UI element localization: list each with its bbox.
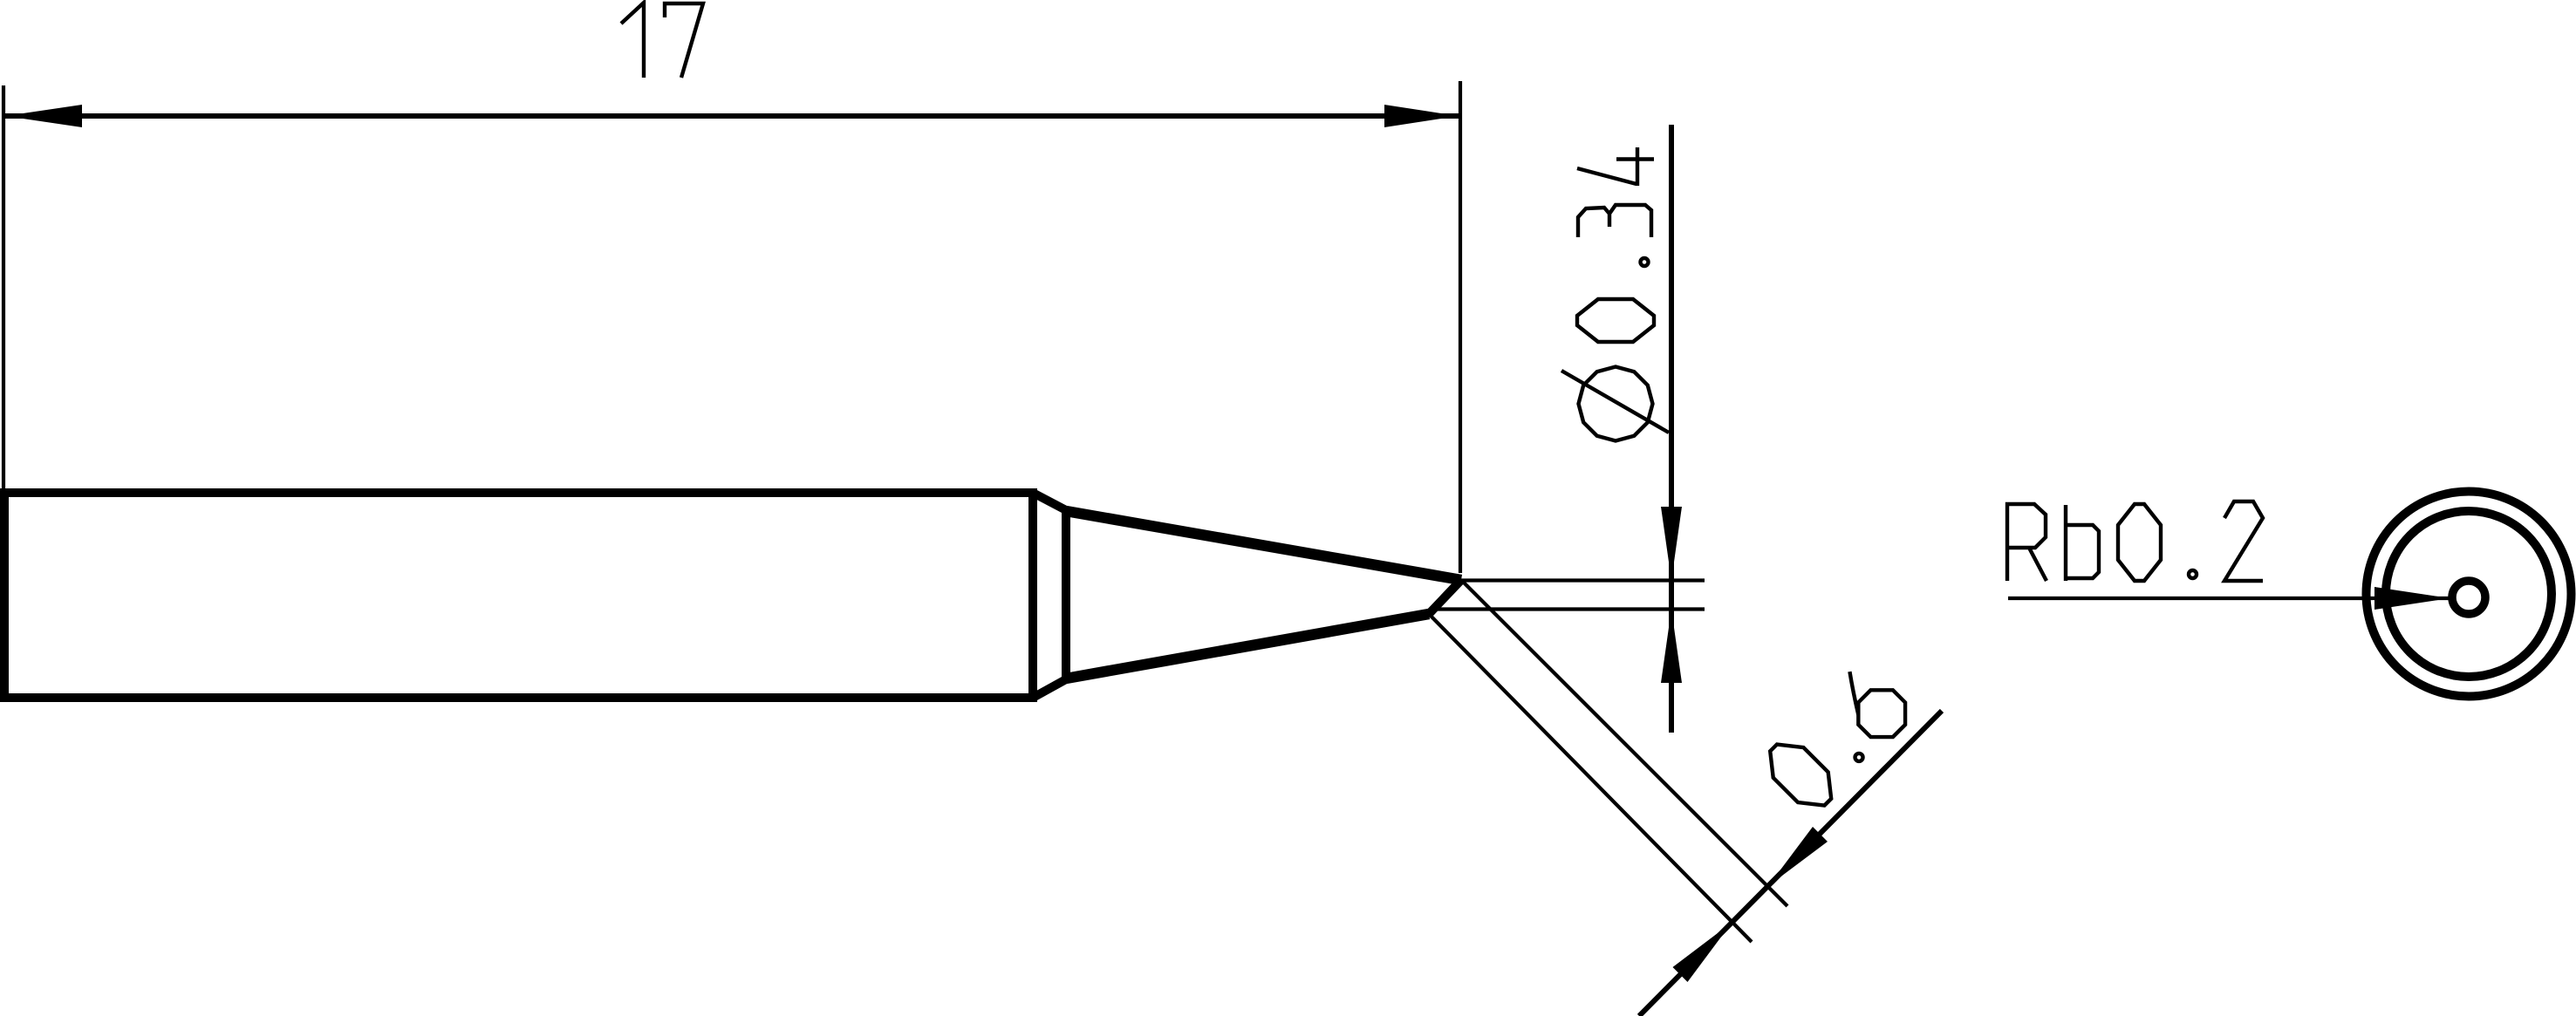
extension line top (dia 0.34) bbox=[1461, 578, 1705, 582]
end view center circle bbox=[2452, 581, 2485, 614]
cone base line bbox=[1062, 508, 1070, 681]
text Rb0.2 bbox=[2007, 501, 2263, 581]
bevel edge at tip bbox=[1429, 580, 1461, 614]
extension line bottom (dia 0.34) bbox=[1433, 607, 1705, 610]
extension line left (17) bbox=[2, 85, 5, 490]
text 17 bbox=[621, 3, 703, 78]
text 0.6 (rotated 45) bbox=[1759, 659, 1917, 817]
leader line Rb0.2 bbox=[2008, 597, 2450, 600]
cone bottom edge bbox=[1066, 614, 1429, 678]
chamfer top bbox=[1033, 493, 1066, 510]
arrow left of 17 bbox=[5, 105, 82, 127]
extension line upper (0.6) bbox=[1461, 580, 1787, 906]
text dia 0.34 (rotated) bbox=[1561, 147, 1669, 441]
dimension line 17 bbox=[5, 113, 1459, 119]
arrow up to bottom line bbox=[1661, 610, 1682, 684]
chamfer bottom bbox=[1033, 679, 1066, 698]
arrow down to top line bbox=[1661, 507, 1682, 581]
arrow lower (0.6) bbox=[1673, 923, 1732, 983]
body rectangle (tip shank) bbox=[4, 493, 1033, 698]
arrow upper (0.6) bbox=[1768, 827, 1828, 886]
dimension line 0.6 bbox=[1639, 711, 1942, 1016]
cone top edge bbox=[1066, 511, 1461, 580]
extension line lower (0.6) bbox=[1429, 614, 1752, 942]
dimension line dia 0.34 bbox=[1669, 125, 1674, 733]
end view inner circle bbox=[2386, 511, 2552, 677]
arrow right of 17 bbox=[1384, 105, 1459, 127]
leader arrow bbox=[2374, 587, 2450, 610]
end view outer circle bbox=[2367, 492, 2572, 697]
extension line right (17) bbox=[1459, 81, 1462, 573]
